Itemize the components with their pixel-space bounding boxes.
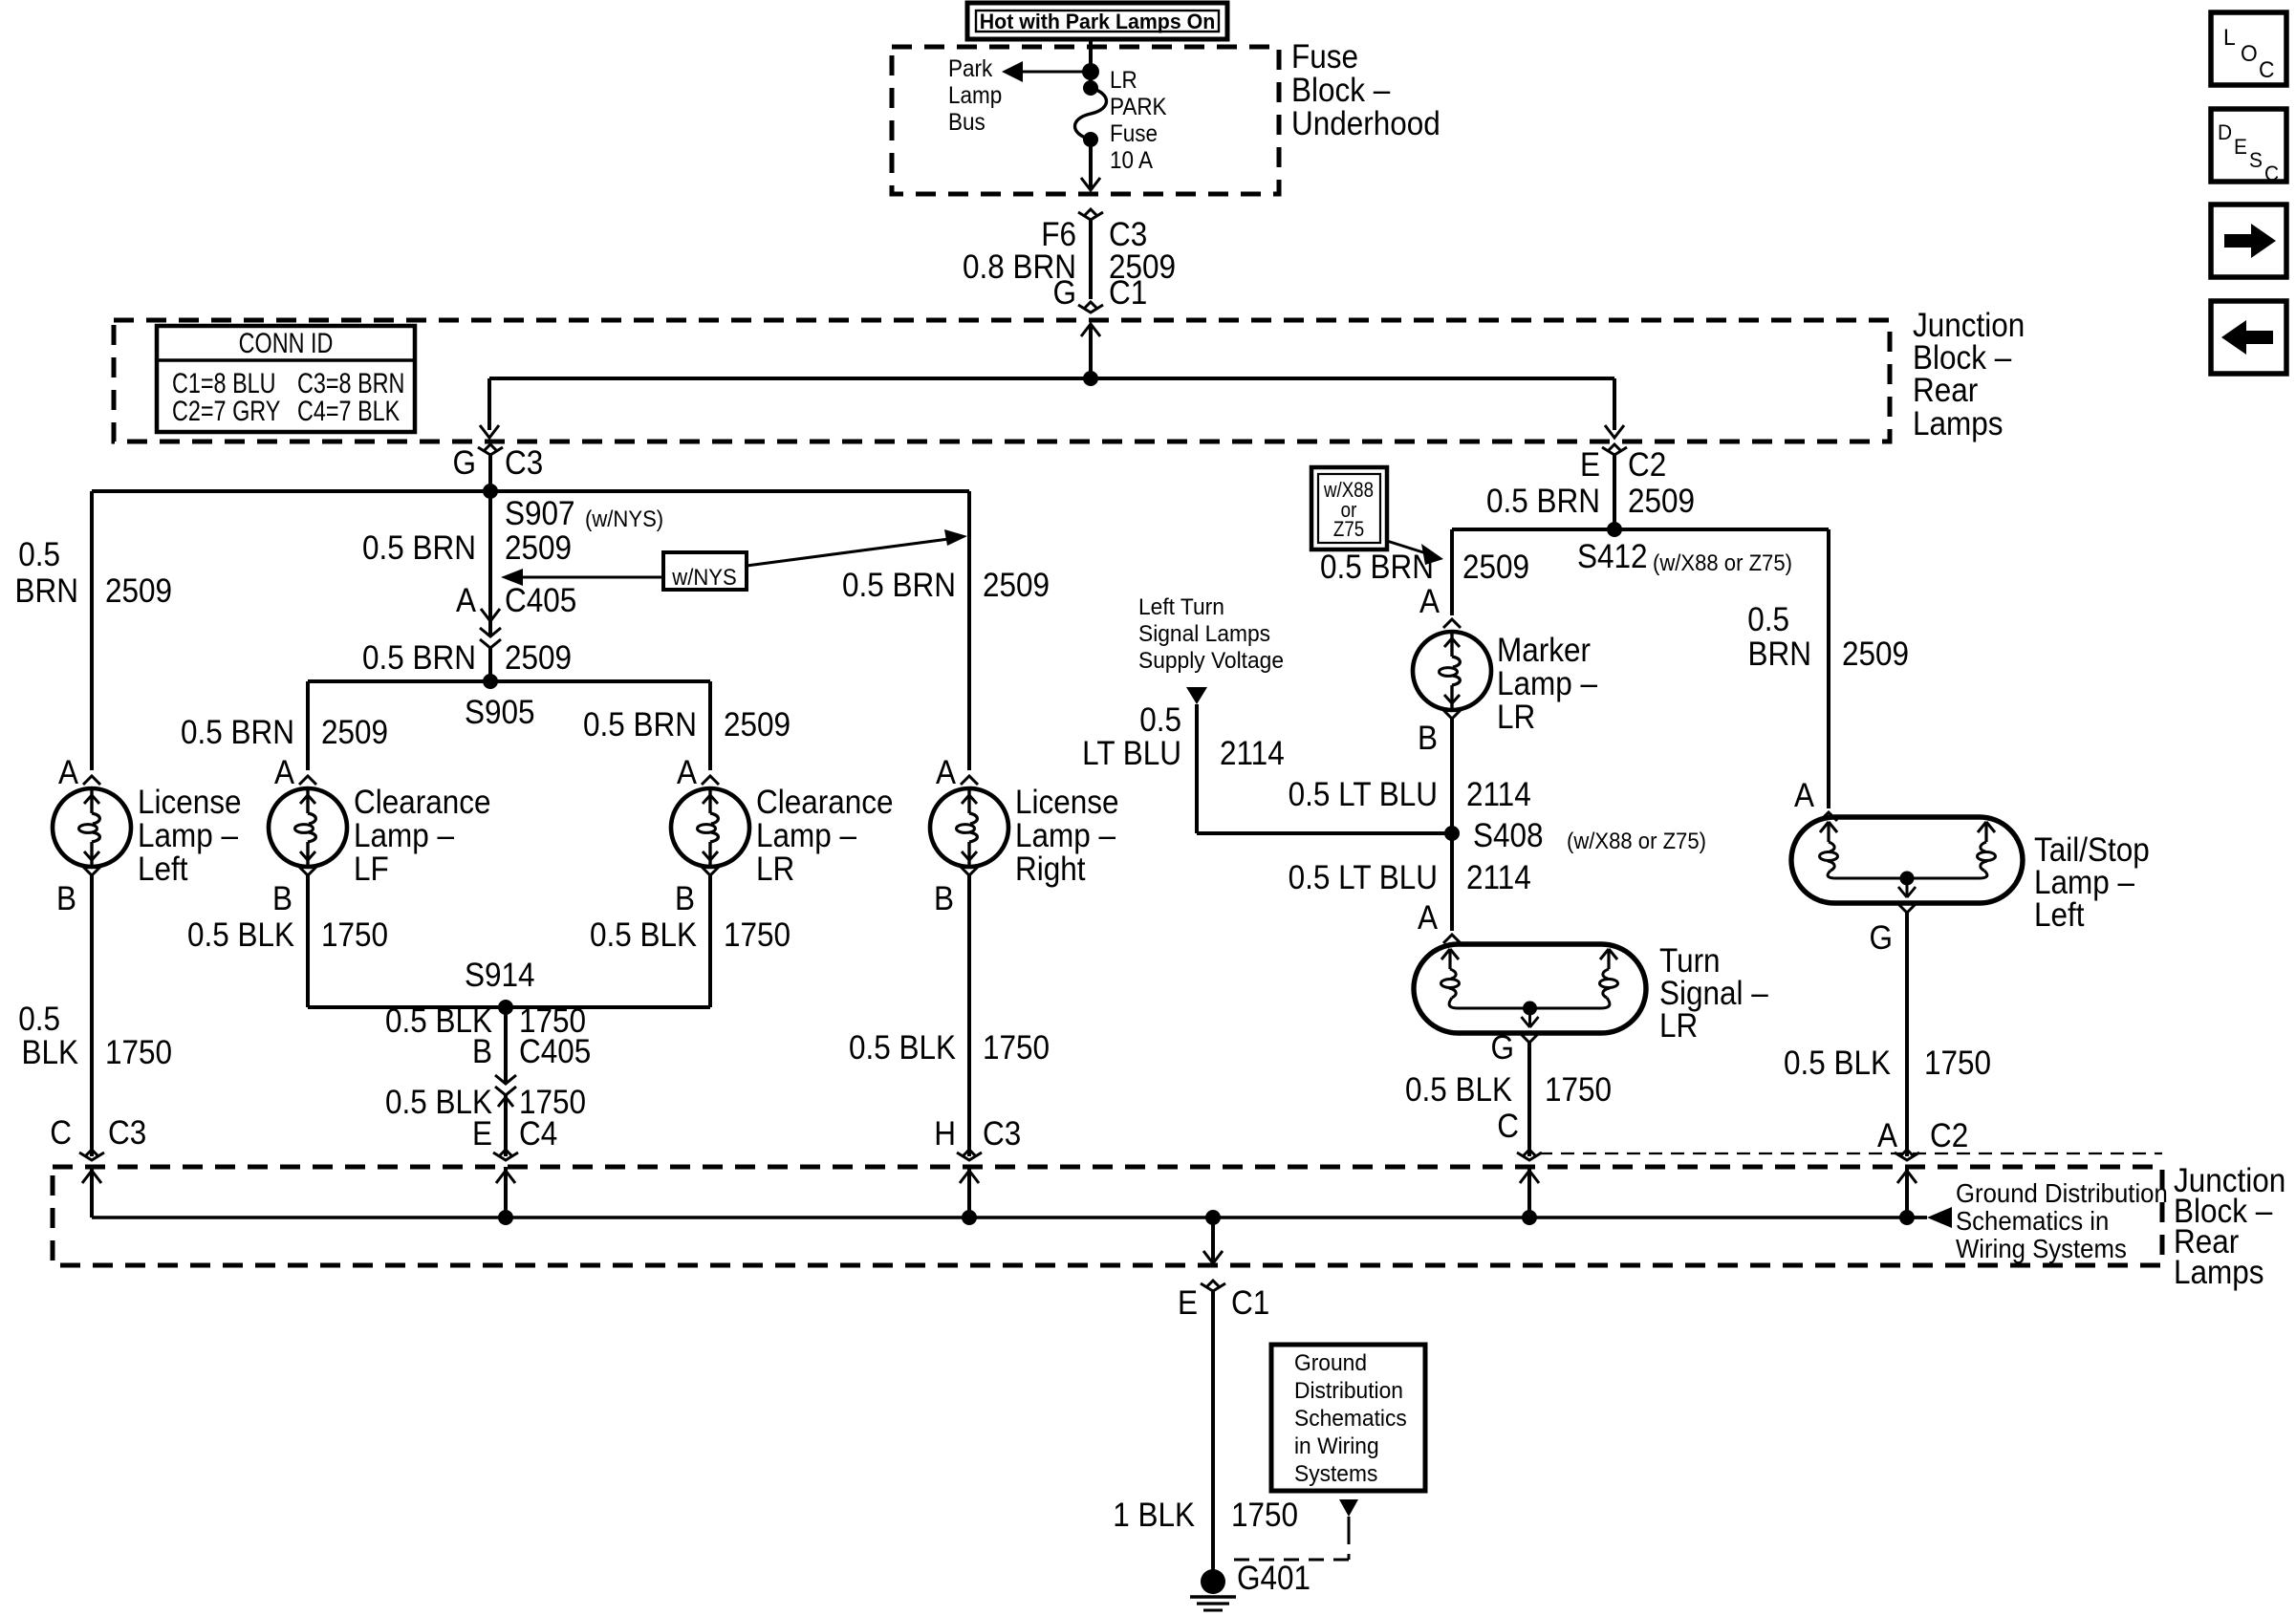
svg-text:1 BLK: 1 BLK bbox=[1113, 1497, 1195, 1535]
svg-text:Lamps: Lamps bbox=[2174, 1255, 2264, 1292]
svg-text:0.5: 0.5 bbox=[1139, 702, 1181, 740]
svg-text:Schematics: Schematics bbox=[1294, 1405, 1407, 1431]
wire: 0.5 BLK 1750 to E C4 bbox=[504, 1093, 508, 1156]
svg-text:BRN: BRN bbox=[15, 573, 78, 611]
fuse block - underhood dashed box bbox=[892, 47, 1279, 194]
lamp pin B bbox=[961, 867, 978, 875]
conn id table bbox=[157, 326, 415, 432]
svg-text:B: B bbox=[934, 881, 954, 918]
svg-text:C405: C405 bbox=[505, 583, 576, 620]
svg-text:D: D bbox=[2218, 121, 2232, 145]
svg-text:Lamps: Lamps bbox=[1913, 406, 2004, 443]
svg-text:Schematics in: Schematics in bbox=[1956, 1206, 2109, 1236]
svg-text:2509: 2509 bbox=[321, 715, 388, 752]
wire: turn signal ground bbox=[1527, 1043, 1531, 1156]
svg-text:Right: Right bbox=[1015, 851, 1086, 889]
svg-text:S412: S412 bbox=[1577, 539, 1648, 576]
right arrow nav box bbox=[2211, 205, 2286, 277]
svg-text:E: E bbox=[472, 1116, 492, 1153]
svg-text:1750: 1750 bbox=[1545, 1072, 1612, 1110]
svg-text:S905: S905 bbox=[465, 695, 535, 732]
svg-text:A: A bbox=[1794, 778, 1815, 815]
ground distribution note (right) bbox=[1907, 1216, 1927, 1218]
wire: S905 left branch bbox=[306, 681, 310, 770]
svg-text:0.5 LT BLU: 0.5 LT BLU bbox=[1289, 860, 1438, 897]
wire: E C1 exit bbox=[1211, 1217, 1215, 1265]
marker lamp bulb bbox=[1413, 632, 1491, 710]
svg-text:(w/X88 or Z75): (w/X88 or Z75) bbox=[1567, 828, 1706, 853]
svg-text:Lamp –: Lamp – bbox=[138, 818, 238, 855]
svg-text:C4: C4 bbox=[519, 1116, 557, 1153]
svg-text:C3: C3 bbox=[505, 445, 543, 483]
svg-text:0.5 BRN: 0.5 BRN bbox=[583, 707, 697, 744]
svg-text:2114: 2114 bbox=[1466, 777, 1531, 814]
svg-text:BRN: BRN bbox=[1748, 636, 1811, 674]
ground distribution pointer bbox=[1339, 1499, 1358, 1517]
svg-text:1750: 1750 bbox=[1231, 1497, 1298, 1535]
svg-text:C2: C2 bbox=[1628, 447, 1666, 485]
svg-text:Systems: Systems bbox=[1294, 1460, 1377, 1486]
svg-text:C2=7 GRY: C2=7 GRY bbox=[172, 395, 280, 426]
wire: tail stop feed bbox=[1827, 529, 1830, 808]
wire: S907 horizontal bbox=[92, 489, 969, 493]
svg-text:C3: C3 bbox=[983, 1116, 1021, 1153]
svg-text:2114: 2114 bbox=[1220, 736, 1285, 773]
ground bus wire bbox=[90, 1167, 94, 1217]
svg-text:2509: 2509 bbox=[505, 640, 572, 678]
wire: marker lamp feed bbox=[1450, 529, 1454, 615]
svg-text:0.5 LT BLU: 0.5 LT BLU bbox=[1289, 777, 1438, 814]
svg-text:0.5 BRN: 0.5 BRN bbox=[1320, 549, 1434, 587]
svg-text:2509: 2509 bbox=[505, 530, 572, 568]
ground distribution schematics box bbox=[1271, 1345, 1425, 1491]
svg-text:0.5 BLK: 0.5 BLK bbox=[1784, 1045, 1891, 1083]
svg-text:E: E bbox=[1580, 447, 1600, 485]
wire: 1 BLK 1750 to ground bbox=[1211, 1291, 1215, 1570]
svg-text:B: B bbox=[1418, 721, 1438, 758]
wire from hot feed bbox=[1089, 39, 1093, 86]
svg-text:B: B bbox=[472, 1034, 492, 1071]
svg-text:PARK: PARK bbox=[1110, 94, 1167, 120]
svg-text:E: E bbox=[1178, 1285, 1198, 1323]
node S914 bbox=[308, 1005, 710, 1009]
svg-text:LF: LF bbox=[354, 851, 389, 889]
svg-text:0.5: 0.5 bbox=[18, 537, 60, 574]
lamp pin B bbox=[299, 867, 316, 875]
wire: tail ground bbox=[1905, 913, 1909, 1156]
svg-text:0.5 BLK: 0.5 BLK bbox=[590, 917, 697, 955]
connector G C3 bbox=[478, 447, 503, 455]
svg-text:B: B bbox=[675, 881, 695, 918]
svg-text:Z75: Z75 bbox=[1333, 519, 1364, 542]
svg-text:License: License bbox=[1015, 785, 1119, 822]
svg-text:2509: 2509 bbox=[983, 568, 1050, 605]
svg-text:0.5 BLK: 0.5 BLK bbox=[849, 1030, 956, 1067]
svg-text:LR: LR bbox=[756, 851, 794, 889]
svg-text:Lamp –: Lamp – bbox=[1015, 818, 1116, 855]
svg-text:L: L bbox=[2223, 24, 2236, 50]
lamp bulb bbox=[53, 788, 131, 867]
connector turn signal G bbox=[1521, 1034, 1538, 1043]
svg-text:LR: LR bbox=[1110, 67, 1137, 94]
svg-text:(w/X88 or Z75): (w/X88 or Z75) bbox=[1653, 549, 1792, 575]
bus taps bbox=[504, 1167, 508, 1217]
svg-text:G: G bbox=[1491, 1030, 1514, 1067]
svg-text:C405: C405 bbox=[519, 1034, 591, 1071]
node S907 bbox=[483, 484, 498, 499]
svg-text:H: H bbox=[934, 1116, 956, 1153]
svg-text:B: B bbox=[272, 881, 292, 918]
svg-text:B: B bbox=[56, 881, 76, 918]
svg-text:S914: S914 bbox=[465, 958, 535, 995]
svg-text:Ground Distribution: Ground Distribution bbox=[1956, 1178, 2168, 1208]
svg-text:C2: C2 bbox=[1930, 1118, 1968, 1155]
svg-text:Signal Lamps: Signal Lamps bbox=[1138, 620, 1270, 646]
svg-text:S: S bbox=[2249, 149, 2263, 173]
loc nav box bbox=[2211, 12, 2286, 85]
fuse LR PARK 10A bbox=[1083, 80, 1098, 96]
lamp bulb bbox=[671, 788, 749, 867]
svg-text:Left Turn: Left Turn bbox=[1138, 593, 1224, 619]
connector E C2 bbox=[1602, 447, 1627, 455]
svg-text:Fuse: Fuse bbox=[1110, 120, 1158, 147]
ground G401 bbox=[1201, 1569, 1225, 1594]
wire: S907 to C405 bbox=[488, 491, 492, 635]
wire 0.8 BRN 2509 bbox=[1089, 220, 1093, 299]
svg-text:0.5 BRN: 0.5 BRN bbox=[362, 640, 476, 678]
svg-text:S408: S408 bbox=[1473, 818, 1544, 855]
wire: left leg down bbox=[487, 378, 491, 430]
wire: S408 to turn signal bbox=[1450, 833, 1454, 931]
svg-text:Lamp –: Lamp – bbox=[1497, 666, 1597, 703]
node E C1 tap bbox=[1205, 1210, 1221, 1225]
svg-text:A: A bbox=[1419, 584, 1440, 621]
svg-text:LR: LR bbox=[1659, 1008, 1698, 1045]
svg-text:0.5 BLK: 0.5 BLK bbox=[187, 917, 294, 955]
svg-text:O: O bbox=[2241, 40, 2258, 66]
wire: S412 horizontal bbox=[1452, 528, 1829, 531]
wire: park lamp bus arrow bbox=[1013, 71, 1091, 74]
svg-text:BLK: BLK bbox=[21, 1035, 78, 1072]
wire: clearance LR drop bbox=[708, 875, 712, 1007]
svg-text:Distribution: Distribution bbox=[1294, 1377, 1403, 1403]
left arrow nav box bbox=[2211, 301, 2286, 374]
svg-text:A: A bbox=[1418, 900, 1439, 937]
svg-text:1750: 1750 bbox=[321, 917, 388, 955]
svg-text:C1: C1 bbox=[1231, 1285, 1269, 1323]
svg-text:Clearance: Clearance bbox=[756, 785, 894, 822]
connector G C1 bbox=[1078, 305, 1103, 312]
node S412 bbox=[1607, 522, 1622, 537]
wire: S905 horizontal bbox=[308, 679, 710, 683]
svg-text:A: A bbox=[1877, 1118, 1898, 1155]
wire: feed into junction block bbox=[1081, 324, 1100, 336]
svg-text:0.5: 0.5 bbox=[1747, 602, 1789, 639]
svg-text:Left: Left bbox=[138, 851, 188, 889]
junction block - rear lamps (bottom) dashed box bbox=[53, 1167, 2162, 1265]
svg-text:C1: C1 bbox=[1109, 275, 1147, 312]
svg-text:Supply Voltage: Supply Voltage bbox=[1138, 647, 1284, 673]
wire: left drop 0.5 BRN 2509 bbox=[90, 491, 94, 770]
svg-text:Wiring Systems: Wiring Systems bbox=[1956, 1234, 2127, 1263]
w/NYS arrow to right wire bbox=[747, 538, 956, 566]
wire: S914 to C405 B bbox=[504, 1007, 508, 1082]
svg-text:Fuse: Fuse bbox=[1291, 39, 1358, 76]
connector E C1 bbox=[1201, 1283, 1225, 1291]
node: park lamp bus tap bbox=[1082, 63, 1099, 80]
svg-text:C4=7 BLK: C4=7 BLK bbox=[297, 395, 400, 426]
lamp bulb bbox=[930, 788, 1008, 867]
svg-text:Rear: Rear bbox=[1913, 373, 1978, 410]
svg-text:0.5 BRN: 0.5 BRN bbox=[181, 715, 294, 752]
svg-text:A: A bbox=[677, 755, 698, 792]
svg-text:S907: S907 bbox=[505, 496, 575, 533]
svg-text:1750: 1750 bbox=[1924, 1045, 1991, 1083]
svg-text:A: A bbox=[58, 755, 79, 792]
svg-text:Left: Left bbox=[2034, 897, 2085, 935]
svg-text:2114: 2114 bbox=[1466, 860, 1531, 897]
svg-text:0.5: 0.5 bbox=[18, 1002, 60, 1039]
svg-text:0.5 BRN: 0.5 BRN bbox=[1486, 484, 1600, 521]
svg-text:C: C bbox=[2264, 162, 2279, 186]
svg-text:A: A bbox=[274, 755, 295, 792]
svg-text:Hot with Park Lamps On: Hot with Park Lamps On bbox=[980, 10, 1215, 33]
svg-text:C3: C3 bbox=[108, 1115, 146, 1153]
svg-text:G: G bbox=[453, 445, 476, 483]
svg-text:0.5 BRN: 0.5 BRN bbox=[842, 568, 956, 605]
label: Hot with Park Lamps On bbox=[967, 3, 1227, 39]
svg-text:C: C bbox=[2259, 56, 2274, 82]
lamp pin B bbox=[702, 867, 719, 875]
lamp bulb bbox=[269, 788, 347, 867]
svg-text:1750: 1750 bbox=[983, 1030, 1050, 1067]
svg-text:1750: 1750 bbox=[724, 917, 791, 955]
node on internal bus bbox=[1083, 371, 1098, 386]
w/X88 or Z75 flag box bbox=[1311, 467, 1387, 549]
lamp pin B bbox=[83, 867, 100, 875]
w/NYS flag box bbox=[501, 569, 523, 586]
svg-text:0.5 BLK: 0.5 BLK bbox=[1405, 1072, 1512, 1110]
wire: fuse output bbox=[1089, 140, 1093, 190]
svg-text:(w/NYS): (w/NYS) bbox=[585, 506, 663, 531]
svg-text:G: G bbox=[1053, 275, 1076, 312]
turn signal LR lamp bbox=[1414, 944, 1646, 1033]
svg-text:Lamp –: Lamp – bbox=[354, 818, 454, 855]
wire: license right ground drop bbox=[967, 875, 971, 1156]
svg-text:w/NYS: w/NYS bbox=[671, 564, 736, 590]
tail/stop lamp bbox=[1791, 817, 2023, 903]
wire: marker to S408 bbox=[1450, 719, 1454, 833]
svg-text:Lamp –: Lamp – bbox=[756, 818, 856, 855]
svg-text:2509: 2509 bbox=[1462, 549, 1529, 587]
svg-text:Block –: Block – bbox=[1291, 73, 1391, 110]
wire: S905 right branch bbox=[708, 681, 712, 770]
svg-text:C: C bbox=[50, 1115, 72, 1153]
svg-text:A: A bbox=[456, 583, 477, 620]
svg-text:Marker: Marker bbox=[1497, 633, 1591, 670]
node S905 bbox=[483, 674, 498, 689]
junction block - rear lamps (top) dashed box bbox=[114, 320, 1890, 442]
svg-text:LT BLU: LT BLU bbox=[1082, 736, 1181, 773]
svg-text:2509: 2509 bbox=[105, 573, 172, 611]
svg-text:E: E bbox=[2234, 136, 2247, 160]
svg-text:Park: Park bbox=[948, 55, 992, 82]
connector F6 C3 bbox=[1078, 212, 1103, 220]
svg-text:LR: LR bbox=[1497, 700, 1535, 737]
svg-text:A: A bbox=[936, 755, 957, 792]
wire: right drop to license right bbox=[967, 491, 971, 770]
svg-text:G: G bbox=[1870, 920, 1893, 958]
svg-text:Clearance: Clearance bbox=[354, 785, 491, 822]
wire: right leg down bbox=[1613, 378, 1616, 430]
svg-text:2509: 2509 bbox=[1628, 484, 1695, 521]
svg-text:Underhood: Underhood bbox=[1291, 106, 1440, 143]
svg-text:Lamp: Lamp bbox=[948, 82, 1002, 109]
svg-text:CONN ID: CONN ID bbox=[239, 327, 334, 358]
wire: junction internal bus bbox=[489, 377, 1614, 380]
connector marker B bbox=[1443, 710, 1461, 719]
svg-text:G401: G401 bbox=[1237, 1561, 1310, 1598]
svg-text:License: License bbox=[138, 785, 242, 822]
svg-text:C: C bbox=[1497, 1109, 1519, 1146]
svg-text:1750: 1750 bbox=[105, 1035, 172, 1072]
svg-text:Bus: Bus bbox=[948, 109, 986, 136]
desc nav box bbox=[2211, 109, 2286, 182]
svg-text:in Wiring: in Wiring bbox=[1294, 1433, 1379, 1458]
svg-text:Ground: Ground bbox=[1294, 1349, 1367, 1375]
wire: license left ground drop bbox=[90, 875, 94, 1156]
node S408 bbox=[1444, 826, 1460, 841]
wire: clearance LF drop bbox=[306, 875, 310, 1007]
connector tail G bbox=[1898, 904, 1916, 913]
wire: C405 to S905 bbox=[488, 646, 492, 681]
thin dashed C2 line bbox=[1539, 1153, 2162, 1154]
svg-text:2509: 2509 bbox=[1842, 636, 1909, 674]
svg-text:0.5 BRN: 0.5 BRN bbox=[362, 530, 476, 568]
svg-text:10 A: 10 A bbox=[1110, 147, 1153, 174]
svg-text:2509: 2509 bbox=[724, 707, 791, 744]
